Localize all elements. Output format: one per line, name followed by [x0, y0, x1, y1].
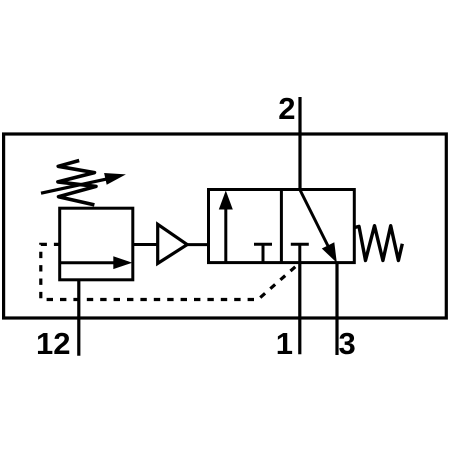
svg-text:3: 3 — [339, 326, 356, 361]
svg-text:12: 12 — [36, 326, 70, 361]
svg-text:2: 2 — [278, 91, 295, 126]
svg-text:1: 1 — [276, 326, 293, 361]
